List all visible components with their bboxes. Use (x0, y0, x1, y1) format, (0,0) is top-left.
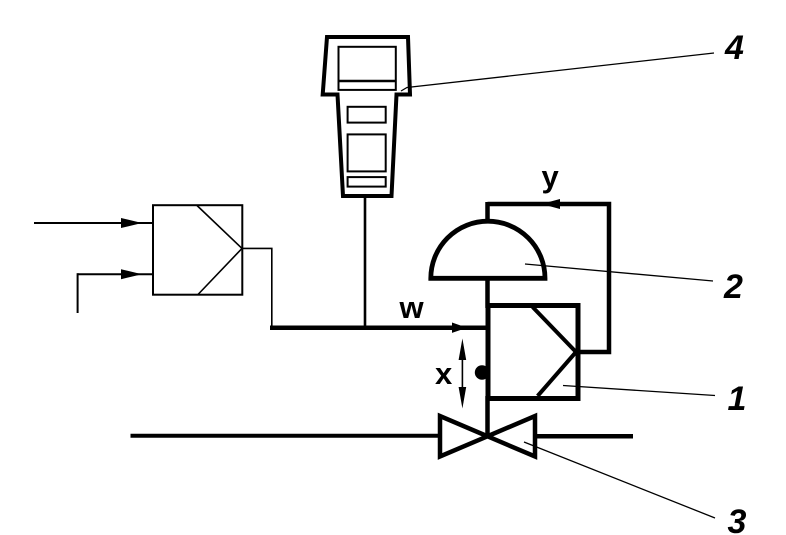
arrowhead input 2 (121, 269, 142, 279)
leader to label 1 (563, 386, 715, 396)
x travel arrow line (461, 344, 463, 403)
svg-text:1: 1 (728, 380, 747, 418)
svg-text:x: x (435, 356, 453, 391)
communicator keypad (348, 134, 386, 171)
wire dome stem top (485, 202, 490, 224)
communicator U4 body outline (323, 37, 410, 196)
comparator box (153, 205, 242, 295)
node junction dot (475, 365, 489, 379)
wire input 2 horizontal (78, 273, 153, 275)
leader to label 4 (401, 53, 714, 91)
wire pipe left (131, 434, 439, 438)
leader to label 2 (525, 264, 713, 281)
wire feedback loop y (488, 204, 610, 352)
positioner diagonal lower (538, 352, 576, 396)
arrowhead x bottom (459, 387, 467, 409)
actuator dome 2 (431, 221, 545, 278)
valve 3 right triangle (488, 416, 536, 457)
svg-text:4: 4 (724, 29, 744, 67)
wire pipe right (536, 434, 633, 439)
svg-text:y: y (542, 159, 560, 194)
communicator screen divider (339, 80, 396, 83)
wire comparator output (242, 248, 272, 327)
wire communicator stem (364, 197, 367, 328)
comparator diagonal lower (198, 248, 242, 294)
positioner diagonal upper (533, 307, 576, 352)
wire w setpoint line (270, 325, 486, 330)
wire positioner to valve (485, 396, 490, 438)
arrowhead x top (459, 339, 467, 361)
communicator bottom slot (348, 177, 386, 187)
comparator diagonal upper (197, 206, 242, 249)
positioner box 1 (488, 306, 578, 399)
valve 3 left triangle (440, 416, 488, 457)
communicator button row 1 (348, 107, 386, 123)
wire dome to positioner (485, 276, 490, 308)
arrowhead input 1 (121, 218, 142, 228)
svg-text:2: 2 (723, 268, 743, 306)
arrowhead w (452, 323, 467, 333)
leader to label 3 (524, 442, 715, 518)
wire input 1 (34, 222, 153, 224)
communicator screen (339, 47, 396, 90)
arrowhead y (541, 199, 560, 209)
wire input 2 vertical (77, 273, 79, 313)
svg-text:w: w (399, 290, 425, 325)
svg-text:3: 3 (728, 503, 747, 535)
